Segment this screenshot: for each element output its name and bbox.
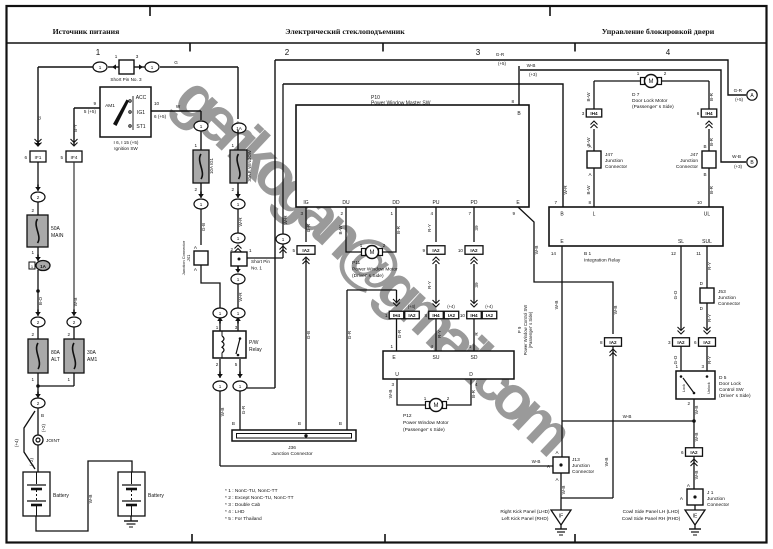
svg-text:MAIN: MAIN bbox=[51, 233, 64, 239]
svg-text:Junction: Junction bbox=[680, 158, 698, 164]
svg-text:2: 2 bbox=[231, 187, 234, 192]
svg-text:2: 2 bbox=[383, 243, 386, 248]
svg-text:3: 3 bbox=[391, 382, 394, 387]
svg-text:Left Kick Panel (RHD): Left Kick Panel (RHD) bbox=[502, 516, 549, 522]
svg-text:Junction Connector: Junction Connector bbox=[271, 451, 313, 457]
svg-text:UL: UL bbox=[704, 212, 711, 218]
svg-text:PU: PU bbox=[433, 200, 440, 206]
svg-text:W-B: W-B bbox=[88, 495, 93, 504]
svg-text:* 5 : For Thailand: * 5 : For Thailand bbox=[225, 516, 262, 522]
svg-text:2: 2 bbox=[37, 195, 40, 200]
svg-text:I 6, I 15 (+5): I 6, I 15 (+5) bbox=[114, 140, 139, 145]
svg-text:Cowl Side Panel LH (LHD): Cowl Side Panel LH (LHD) bbox=[623, 509, 680, 515]
svg-text:Connector: Connector bbox=[605, 164, 628, 170]
svg-text:Connector: Connector bbox=[707, 502, 730, 508]
svg-text:W-B: W-B bbox=[694, 433, 699, 442]
svg-text:AM1: AM1 bbox=[105, 103, 115, 109]
svg-text:(+2): (+2) bbox=[41, 424, 46, 432]
svg-text:5: 5 bbox=[235, 362, 238, 367]
svg-text:JOINT: JOINT bbox=[46, 438, 60, 444]
svg-text:(Passenger' s Side): (Passenger' s Side) bbox=[632, 104, 674, 110]
svg-text:W-B: W-B bbox=[623, 414, 632, 419]
svg-text:8: 8 bbox=[588, 200, 591, 205]
svg-text:W-B: W-B bbox=[220, 408, 225, 417]
svg-text:1A: 1A bbox=[40, 264, 47, 269]
svg-text:10: 10 bbox=[697, 200, 703, 205]
svg-text:Control SW: Control SW bbox=[719, 387, 744, 393]
svg-text:SL: SL bbox=[678, 239, 684, 245]
svg-text:8: 8 bbox=[424, 313, 427, 318]
svg-text:1: 1 bbox=[115, 54, 118, 59]
svg-text:(+4): (+4) bbox=[408, 304, 416, 309]
svg-text:IH4: IH4 bbox=[590, 111, 598, 116]
svg-text:IA2: IA2 bbox=[302, 248, 310, 253]
svg-text:Short Pin No. 3: Short Pin No. 3 bbox=[110, 77, 142, 82]
svg-text:ACC: ACC bbox=[136, 95, 147, 101]
svg-text:5: 5 bbox=[292, 248, 295, 253]
svg-text:3: 3 bbox=[136, 54, 139, 59]
svg-text:B: B bbox=[41, 413, 44, 418]
svg-text:W-B: W-B bbox=[554, 301, 559, 310]
svg-text:1: 1 bbox=[67, 377, 70, 382]
svg-text:SD: SD bbox=[471, 355, 478, 361]
svg-text:G-O: G-O bbox=[673, 290, 678, 299]
svg-text:Connector: Connector bbox=[572, 469, 595, 475]
svg-text:B-O: B-O bbox=[38, 296, 43, 305]
svg-text:3: 3 bbox=[476, 48, 481, 57]
svg-text:(Passenger' s Side): (Passenger' s Side) bbox=[528, 311, 533, 348]
svg-text:IH4: IH4 bbox=[470, 313, 478, 318]
svg-text:7: 7 bbox=[554, 200, 557, 205]
svg-text:4: 4 bbox=[430, 344, 433, 349]
svg-text:* 3 : Double Cab: * 3 : Double Cab bbox=[225, 502, 261, 508]
svg-text:* 1 : NonC-TU, NonC-TT: * 1 : NonC-TU, NonC-TT bbox=[225, 488, 278, 494]
svg-text:M: M bbox=[649, 79, 654, 85]
svg-text:10: 10 bbox=[154, 101, 160, 106]
svg-text:30A P. WINDOW: 30A P. WINDOW bbox=[247, 150, 252, 181]
svg-text:IA2: IA2 bbox=[677, 340, 685, 345]
svg-text:9: 9 bbox=[422, 248, 425, 253]
svg-text:ST1: ST1 bbox=[136, 124, 145, 130]
svg-text:B 1: B 1 bbox=[584, 251, 592, 257]
svg-text:J41: J41 bbox=[186, 254, 191, 261]
svg-text:B: B bbox=[703, 144, 706, 149]
svg-text:(+4): (+4) bbox=[14, 439, 19, 447]
svg-text:W-B: W-B bbox=[388, 390, 393, 399]
svg-text:10A IG1: 10A IG1 bbox=[209, 158, 214, 174]
svg-text:Connector: Connector bbox=[718, 301, 741, 307]
svg-text:1: 1 bbox=[237, 202, 240, 207]
svg-text:Short Pin: Short Pin bbox=[251, 259, 270, 264]
svg-text:1: 1 bbox=[239, 384, 242, 389]
svg-text:10: 10 bbox=[458, 248, 464, 253]
svg-text:No. 1: No. 1 bbox=[251, 266, 262, 271]
svg-text:3: 3 bbox=[582, 111, 585, 116]
svg-text:1: 1 bbox=[194, 143, 197, 148]
svg-text:B-R: B-R bbox=[709, 185, 714, 194]
svg-text:M: M bbox=[434, 403, 439, 409]
svg-text:W-B: W-B bbox=[613, 306, 618, 315]
svg-text:J 1: J 1 bbox=[707, 490, 714, 496]
svg-text:Door Lock Motor: Door Lock Motor bbox=[632, 98, 668, 104]
svg-text:L: L bbox=[593, 212, 596, 218]
svg-text:5: 5 bbox=[60, 155, 63, 160]
svg-text:10: 10 bbox=[460, 313, 466, 318]
svg-text:AM1: AM1 bbox=[87, 357, 98, 363]
svg-text:D 5: D 5 bbox=[719, 375, 727, 381]
svg-text:1: 1 bbox=[200, 202, 203, 207]
svg-text:2: 2 bbox=[194, 187, 197, 192]
svg-text:W-R: W-R bbox=[238, 217, 243, 227]
svg-text:1: 1 bbox=[96, 48, 101, 57]
svg-text:R-Y: R-Y bbox=[707, 262, 712, 270]
svg-text:DD: DD bbox=[392, 200, 400, 206]
svg-text:B-W: B-W bbox=[338, 225, 343, 235]
svg-text:1: 1 bbox=[151, 65, 154, 70]
svg-text:IA2: IA2 bbox=[470, 248, 478, 253]
svg-text:P12: P12 bbox=[403, 413, 412, 419]
svg-text:IA2: IA2 bbox=[408, 313, 416, 318]
svg-text:W-B: W-B bbox=[73, 298, 78, 307]
svg-text:P11: P11 bbox=[352, 260, 361, 266]
svg-text:39: 39 bbox=[474, 282, 479, 288]
svg-text:4: 4 bbox=[468, 344, 471, 349]
svg-text:ALT: ALT bbox=[51, 357, 60, 363]
svg-text:SUL: SUL bbox=[702, 239, 712, 245]
svg-text:Junction: Junction bbox=[718, 295, 736, 301]
svg-text:4: 4 bbox=[475, 382, 478, 387]
svg-text:IA2: IA2 bbox=[486, 313, 494, 318]
svg-text:Integration Relay: Integration Relay bbox=[584, 258, 621, 264]
svg-text:W-B: W-B bbox=[694, 471, 699, 480]
svg-text:IF1: IF1 bbox=[35, 155, 42, 161]
svg-text:* 4 : LHD: * 4 : LHD bbox=[225, 509, 245, 515]
svg-text:3: 3 bbox=[668, 340, 671, 345]
svg-text:B: B bbox=[339, 421, 342, 426]
svg-text:G-R: G-R bbox=[734, 88, 743, 93]
svg-text:2: 2 bbox=[67, 332, 70, 337]
svg-text:Электрический стеклоподъемник: Электрический стеклоподъемник bbox=[285, 27, 405, 36]
svg-text:2: 2 bbox=[285, 48, 290, 57]
svg-text:G: G bbox=[174, 60, 178, 65]
svg-text:2: 2 bbox=[216, 362, 219, 367]
svg-text:R-Y: R-Y bbox=[427, 224, 432, 232]
svg-text:2: 2 bbox=[340, 211, 343, 216]
svg-text:1: 1 bbox=[99, 65, 102, 70]
svg-text:J47: J47 bbox=[605, 152, 613, 158]
svg-text:IG: IG bbox=[303, 200, 308, 206]
svg-text:6 (+5): 6 (+5) bbox=[154, 114, 167, 119]
svg-text:1: 1 bbox=[249, 248, 252, 253]
svg-text:1: 1 bbox=[237, 311, 240, 316]
svg-text:2: 2 bbox=[687, 401, 690, 406]
svg-text:DU: DU bbox=[342, 200, 350, 206]
svg-text:(+4): (+4) bbox=[485, 304, 493, 309]
svg-text:G-R: G-R bbox=[347, 330, 352, 339]
svg-text:IA2: IA2 bbox=[448, 313, 456, 318]
svg-text:P/W: P/W bbox=[249, 340, 259, 346]
svg-text:80A: 80A bbox=[51, 350, 61, 356]
svg-text:G-R: G-R bbox=[241, 405, 246, 414]
svg-text:G-B: G-B bbox=[201, 223, 206, 231]
svg-text:B: B bbox=[298, 421, 301, 426]
svg-text:6: 6 bbox=[681, 450, 684, 455]
svg-text:3: 3 bbox=[300, 211, 303, 216]
svg-text:2: 2 bbox=[37, 401, 40, 406]
svg-text:1: 1 bbox=[219, 384, 222, 389]
svg-text:W-B: W-B bbox=[534, 246, 539, 255]
svg-text:U: U bbox=[395, 372, 399, 378]
svg-text:J47: J47 bbox=[690, 152, 698, 158]
svg-text:1: 1 bbox=[216, 325, 219, 330]
svg-text:30A: 30A bbox=[87, 350, 97, 356]
svg-text:G-R: G-R bbox=[306, 223, 311, 232]
svg-text:IH4: IH4 bbox=[393, 313, 401, 318]
svg-text:1: 1 bbox=[675, 364, 678, 369]
svg-text:6: 6 bbox=[697, 111, 700, 116]
svg-text:(+3): (+3) bbox=[529, 72, 537, 77]
svg-text:14: 14 bbox=[551, 251, 557, 256]
svg-text:B-W: B-W bbox=[586, 92, 591, 102]
svg-text:(+4): (+4) bbox=[447, 304, 455, 309]
svg-text:1A: 1A bbox=[236, 126, 243, 131]
svg-text:Battery: Battery bbox=[53, 493, 69, 499]
svg-text:PD: PD bbox=[471, 200, 478, 206]
svg-text:R-Y: R-Y bbox=[707, 356, 712, 364]
svg-text:3: 3 bbox=[701, 364, 704, 369]
svg-text:G-B: G-B bbox=[306, 331, 311, 339]
svg-text:Lock: Lock bbox=[682, 384, 686, 392]
svg-text:1: 1 bbox=[31, 250, 34, 255]
svg-text:(Driver' s Side): (Driver' s Side) bbox=[352, 273, 384, 279]
svg-text:W-B: W-B bbox=[532, 459, 541, 464]
svg-text:Junction: Junction bbox=[572, 463, 590, 469]
svg-text:M: M bbox=[370, 250, 375, 256]
svg-text:1: 1 bbox=[200, 124, 203, 129]
svg-text:G-R: G-R bbox=[397, 329, 402, 338]
svg-text:IF4: IF4 bbox=[71, 155, 78, 161]
svg-text:IG1: IG1 bbox=[137, 110, 145, 116]
svg-text:9: 9 bbox=[93, 101, 96, 106]
svg-text:(+5): (+5) bbox=[735, 97, 743, 102]
svg-text:P 9: P 9 bbox=[517, 326, 522, 333]
svg-text:1: 1 bbox=[637, 71, 640, 76]
svg-text:B-R: B-R bbox=[709, 137, 714, 146]
svg-text:J36: J36 bbox=[288, 445, 296, 451]
svg-text:3: 3 bbox=[235, 325, 238, 330]
svg-text:2: 2 bbox=[37, 320, 40, 325]
svg-text:1: 1 bbox=[424, 396, 427, 401]
svg-text:IF: IF bbox=[559, 514, 563, 520]
svg-text:1: 1 bbox=[385, 313, 388, 318]
svg-text:B-R: B-R bbox=[471, 389, 476, 398]
svg-text:W-R: W-R bbox=[563, 185, 568, 195]
svg-text:1: 1 bbox=[237, 236, 240, 241]
svg-text:Relay: Relay bbox=[249, 347, 262, 353]
svg-text:2: 2 bbox=[230, 247, 233, 252]
svg-text:B-W: B-W bbox=[586, 185, 591, 195]
svg-text:G-R: G-R bbox=[496, 52, 505, 57]
svg-text:7: 7 bbox=[468, 211, 471, 216]
svg-text:39: 39 bbox=[474, 225, 479, 231]
svg-text:4: 4 bbox=[666, 48, 671, 57]
svg-text:IA2: IA2 bbox=[432, 248, 440, 253]
svg-text:R-Y: R-Y bbox=[707, 314, 712, 322]
svg-text:J13: J13 bbox=[572, 457, 580, 463]
svg-text:IA2: IA2 bbox=[609, 340, 617, 345]
svg-text:8: 8 bbox=[600, 340, 603, 345]
svg-text:2: 2 bbox=[73, 320, 76, 325]
svg-text:* 2 : Except NonC-TU, NonC-TT: * 2 : Except NonC-TU, NonC-TT bbox=[225, 495, 294, 501]
svg-text:2: 2 bbox=[447, 396, 450, 401]
svg-text:(Driver' s Side): (Driver' s Side) bbox=[719, 393, 751, 399]
svg-text:IH4: IH4 bbox=[432, 313, 440, 318]
svg-text:Battery: Battery bbox=[148, 493, 164, 499]
svg-text:D: D bbox=[469, 372, 473, 378]
svg-text:1: 1 bbox=[231, 143, 234, 148]
svg-text:1: 1 bbox=[237, 277, 240, 282]
svg-text:J53: J53 bbox=[718, 289, 726, 295]
svg-text:Power Window Motor: Power Window Motor bbox=[352, 267, 398, 273]
svg-text:W-R: W-R bbox=[238, 292, 243, 302]
svg-text:2: 2 bbox=[664, 71, 667, 76]
svg-text:1: 1 bbox=[282, 237, 285, 242]
svg-text:R-Y: R-Y bbox=[437, 330, 442, 338]
svg-text:(Passenger' s Side): (Passenger' s Side) bbox=[403, 427, 445, 433]
svg-text:Junction: Junction bbox=[707, 496, 725, 502]
svg-text:IA2: IA2 bbox=[690, 450, 698, 455]
svg-text:IA2: IA2 bbox=[703, 340, 711, 345]
svg-text:Right Kick Panel (LHD): Right Kick Panel (LHD) bbox=[500, 509, 550, 515]
svg-text:W-B: W-B bbox=[694, 406, 699, 415]
svg-text:B-R: B-R bbox=[396, 225, 401, 234]
svg-text:Junction Connector: Junction Connector bbox=[181, 240, 186, 275]
svg-text:G: G bbox=[37, 116, 42, 120]
svg-text:1: 1 bbox=[219, 311, 222, 316]
svg-text:12: 12 bbox=[671, 251, 677, 256]
svg-text:B-Y: B-Y bbox=[73, 124, 78, 132]
svg-text:G-O: G-O bbox=[673, 355, 678, 364]
svg-text:9: 9 bbox=[512, 211, 515, 216]
svg-text:1: 1 bbox=[390, 211, 393, 216]
svg-text:B: B bbox=[703, 172, 706, 177]
svg-text:R-Y: R-Y bbox=[427, 281, 432, 289]
svg-text:W-B: W-B bbox=[561, 486, 566, 495]
svg-text:6: 6 bbox=[24, 155, 27, 160]
svg-text:W-B: W-B bbox=[732, 154, 741, 159]
svg-text:8: 8 bbox=[511, 99, 514, 104]
svg-text:Power Window Motor: Power Window Motor bbox=[403, 420, 449, 426]
svg-text:W: W bbox=[176, 104, 181, 109]
svg-text:Управление блокировкой двери: Управление блокировкой двери bbox=[602, 27, 715, 36]
svg-text:IH4: IH4 bbox=[705, 111, 713, 116]
svg-text:Connector: Connector bbox=[676, 164, 699, 170]
svg-text:Ignition SW: Ignition SW bbox=[114, 146, 138, 151]
svg-text:5 (+5): 5 (+5) bbox=[84, 109, 97, 114]
svg-text:(+5): (+5) bbox=[498, 61, 506, 66]
svg-text:11: 11 bbox=[696, 251, 701, 256]
svg-text:W-B: W-B bbox=[604, 458, 609, 467]
svg-text:Cowl Side Panel RH (RHD): Cowl Side Panel RH (RHD) bbox=[622, 516, 681, 522]
svg-text:(+3): (+3) bbox=[734, 164, 742, 169]
svg-text:2: 2 bbox=[31, 332, 34, 337]
svg-text:4: 4 bbox=[430, 211, 433, 216]
svg-text:50A: 50A bbox=[51, 226, 61, 232]
svg-text:1: 1 bbox=[360, 243, 363, 248]
svg-text:6: 6 bbox=[694, 340, 697, 345]
svg-text:Unlock: Unlock bbox=[707, 382, 711, 394]
svg-text:B: B bbox=[232, 421, 235, 426]
svg-text:Door Lock: Door Lock bbox=[719, 381, 741, 387]
svg-text:SU: SU bbox=[433, 355, 440, 361]
svg-text:1: 1 bbox=[31, 377, 34, 382]
svg-text:1: 1 bbox=[390, 344, 393, 349]
svg-text:IE: IE bbox=[693, 514, 698, 520]
svg-text:2: 2 bbox=[31, 208, 34, 213]
svg-text:D 7: D 7 bbox=[632, 92, 640, 98]
svg-text:Junction: Junction bbox=[605, 158, 623, 164]
svg-text:Источник питания: Источник питания bbox=[53, 27, 121, 36]
svg-text:W-B: W-B bbox=[527, 63, 536, 68]
svg-text:B-R: B-R bbox=[709, 92, 714, 101]
svg-text:W-R: W-R bbox=[283, 215, 288, 225]
